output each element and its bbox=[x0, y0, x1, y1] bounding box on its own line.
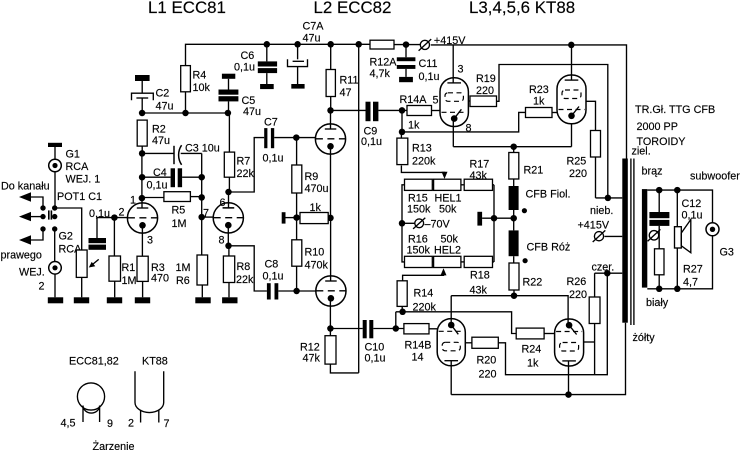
svg-text:subwoofer: subwoofer bbox=[690, 171, 740, 183]
svg-text:0,1u: 0,1u bbox=[263, 153, 284, 165]
svg-text:220: 220 bbox=[569, 168, 587, 180]
svg-text:0,1u: 0,1u bbox=[263, 271, 284, 283]
svg-text:2: 2 bbox=[128, 418, 134, 430]
svg-text:C7: C7 bbox=[264, 117, 278, 129]
svg-text:L2 ECC82: L2 ECC82 bbox=[314, 0, 392, 17]
svg-text:5: 5 bbox=[433, 95, 439, 107]
svg-text:47u: 47u bbox=[156, 101, 174, 113]
svg-text:220: 220 bbox=[476, 85, 494, 97]
svg-text:WEJ. 1: WEJ. 1 bbox=[66, 174, 101, 186]
svg-text:G1: G1 bbox=[66, 149, 80, 161]
svg-text:+415V: +415V bbox=[578, 220, 610, 232]
svg-text:R25: R25 bbox=[567, 156, 587, 168]
svg-text:R13: R13 bbox=[412, 143, 432, 155]
svg-text:C7A: C7A bbox=[303, 21, 325, 33]
svg-text:150k: 150k bbox=[407, 204, 431, 216]
svg-text:R14A: R14A bbox=[400, 94, 428, 106]
svg-text:R17: R17 bbox=[470, 159, 490, 171]
svg-text:150k: 150k bbox=[407, 245, 431, 257]
svg-text:220: 220 bbox=[479, 369, 497, 381]
svg-text:R23: R23 bbox=[529, 84, 549, 96]
svg-text:47k: 47k bbox=[303, 353, 321, 365]
svg-text:22k: 22k bbox=[236, 274, 254, 286]
svg-text:R24: R24 bbox=[522, 344, 542, 356]
svg-text:R4: R4 bbox=[193, 70, 207, 82]
svg-text:4,5: 4,5 bbox=[61, 418, 76, 430]
svg-text:–70V: –70V bbox=[425, 219, 451, 231]
svg-text:470k: 470k bbox=[305, 260, 329, 272]
svg-text:1k: 1k bbox=[527, 358, 539, 370]
svg-text:G3: G3 bbox=[720, 247, 734, 259]
svg-text:R8: R8 bbox=[237, 261, 251, 273]
svg-text:ECC81,82: ECC81,82 bbox=[69, 356, 119, 368]
svg-text:C2: C2 bbox=[156, 88, 170, 100]
svg-text:0,1u: 0,1u bbox=[682, 210, 703, 222]
svg-text:R20: R20 bbox=[477, 355, 497, 367]
svg-text:R5: R5 bbox=[172, 205, 186, 217]
svg-text:50k: 50k bbox=[439, 204, 457, 216]
svg-text:HEL2: HEL2 bbox=[434, 245, 461, 257]
svg-text:R26: R26 bbox=[567, 276, 587, 288]
svg-text:2000 PP: 2000 PP bbox=[637, 121, 678, 133]
svg-text:prawego: prawego bbox=[1, 250, 42, 262]
svg-text:10k: 10k bbox=[193, 82, 211, 94]
svg-text:KT88: KT88 bbox=[142, 356, 168, 368]
svg-text:CFB Fiol.: CFB Fiol. bbox=[526, 189, 571, 201]
svg-text:brąz: brąz bbox=[642, 166, 663, 178]
svg-text:CFB Róż: CFB Róż bbox=[527, 242, 571, 254]
svg-text:C5: C5 bbox=[242, 95, 256, 107]
svg-text:R14: R14 bbox=[414, 288, 434, 300]
svg-text:R7: R7 bbox=[237, 156, 251, 168]
svg-text:R14B: R14B bbox=[405, 340, 432, 352]
svg-text:R6: R6 bbox=[176, 275, 190, 287]
svg-text:6: 6 bbox=[220, 197, 226, 209]
svg-text:43k: 43k bbox=[470, 170, 488, 182]
svg-text:L3,4,5,6 KT88: L3,4,5,6 KT88 bbox=[469, 0, 575, 17]
svg-text:3: 3 bbox=[147, 235, 153, 247]
svg-text:1M: 1M bbox=[172, 218, 187, 230]
svg-text:C6: C6 bbox=[241, 50, 255, 62]
svg-text:R2: R2 bbox=[152, 124, 166, 136]
svg-text:RCA: RCA bbox=[66, 161, 90, 173]
svg-text:220k: 220k bbox=[412, 156, 436, 168]
svg-text:nieb.: nieb. bbox=[590, 205, 613, 217]
svg-text:3: 3 bbox=[458, 64, 464, 76]
svg-text:TOROIDY: TOROIDY bbox=[637, 136, 686, 148]
svg-text:43k: 43k bbox=[470, 285, 488, 297]
svg-text:1k: 1k bbox=[533, 96, 545, 108]
svg-text:1k: 1k bbox=[408, 120, 420, 132]
svg-text:R12A: R12A bbox=[370, 57, 398, 69]
svg-text:22k: 22k bbox=[237, 168, 255, 180]
svg-text:14: 14 bbox=[412, 352, 424, 364]
svg-text:L1 ECC81: L1 ECC81 bbox=[148, 0, 226, 17]
svg-text:470: 470 bbox=[151, 273, 169, 285]
svg-text:220: 220 bbox=[569, 289, 587, 301]
svg-text:47: 47 bbox=[340, 87, 352, 99]
svg-text:R21: R21 bbox=[524, 165, 544, 177]
svg-text:1k: 1k bbox=[310, 202, 322, 214]
svg-text:1M: 1M bbox=[122, 275, 137, 287]
svg-text:R1: R1 bbox=[122, 262, 136, 274]
svg-text:0,1u: 0,1u bbox=[365, 353, 386, 365]
svg-text:470u: 470u bbox=[305, 183, 329, 195]
svg-text:47u: 47u bbox=[303, 33, 321, 45]
svg-text:1: 1 bbox=[130, 195, 136, 207]
svg-text:C3 10u: C3 10u bbox=[185, 143, 220, 155]
svg-text:WEJ.: WEJ. bbox=[19, 267, 45, 279]
svg-text:R19: R19 bbox=[476, 73, 496, 85]
svg-text:czer.: czer. bbox=[592, 262, 615, 274]
svg-text:R18: R18 bbox=[470, 270, 490, 282]
svg-text:C4: C4 bbox=[153, 167, 167, 179]
svg-text:0,1u: 0,1u bbox=[234, 62, 255, 74]
svg-text:4,7k: 4,7k bbox=[370, 68, 391, 80]
svg-text:47u: 47u bbox=[152, 135, 170, 147]
svg-text:1M: 1M bbox=[176, 262, 191, 274]
svg-text:0,1u: 0,1u bbox=[147, 180, 168, 192]
svg-text:TR.Gł. TTG CFB: TR.Gł. TTG CFB bbox=[635, 104, 715, 116]
svg-text:8: 8 bbox=[466, 123, 472, 135]
svg-text:47u: 47u bbox=[243, 106, 261, 118]
svg-text:Żarzenie: Żarzenie bbox=[93, 440, 135, 450]
svg-text:R11: R11 bbox=[340, 75, 359, 87]
svg-text:8: 8 bbox=[219, 235, 225, 247]
svg-text:R27: R27 bbox=[683, 264, 703, 276]
svg-text:biały: biały bbox=[646, 297, 669, 309]
svg-text:Do kanału: Do kanału bbox=[1, 181, 50, 193]
svg-text:POT1 C1: POT1 C1 bbox=[57, 191, 102, 203]
svg-text:C8: C8 bbox=[265, 259, 279, 271]
svg-text:2: 2 bbox=[119, 207, 125, 219]
svg-text:G2: G2 bbox=[59, 231, 73, 243]
svg-text:żółty: żółty bbox=[633, 332, 656, 344]
svg-text:7: 7 bbox=[203, 208, 209, 220]
svg-text:0,1u: 0,1u bbox=[419, 71, 440, 83]
svg-text:0,1u: 0,1u bbox=[361, 136, 382, 148]
svg-text:2: 2 bbox=[39, 281, 45, 293]
svg-text:R10: R10 bbox=[305, 247, 325, 259]
svg-text:C12: C12 bbox=[682, 198, 702, 210]
svg-text:C11: C11 bbox=[419, 58, 438, 70]
svg-text:R22: R22 bbox=[523, 277, 543, 289]
svg-text:R9: R9 bbox=[305, 171, 319, 183]
svg-text:4,7: 4,7 bbox=[683, 277, 698, 289]
svg-text:9: 9 bbox=[107, 418, 113, 430]
svg-text:7: 7 bbox=[164, 418, 170, 430]
